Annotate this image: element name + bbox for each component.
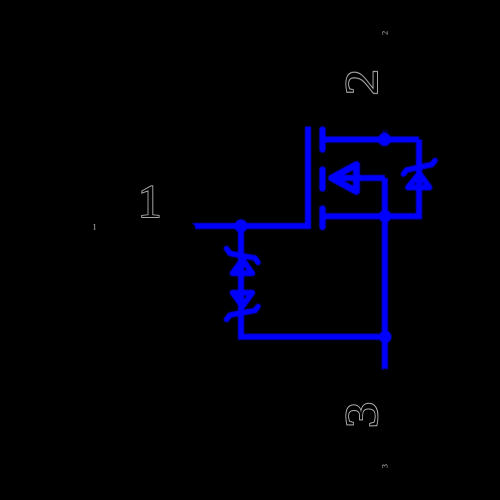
diode gate zener D1 cathode bar: [227, 249, 259, 263]
diode body zener cathode bar: [404, 161, 436, 175]
svg-text:2: 2: [381, 31, 390, 35]
wire gate zener chain and bottom return: [241, 226, 385, 337]
pin 1 dark pin-end cap: [187, 223, 196, 232]
junction bottom net: [379, 331, 392, 344]
pin 2 dark pin stub: [382, 130, 388, 134]
svg-text:3: 3: [381, 464, 390, 468]
transistor Q1 channel dash top: [319, 130, 325, 150]
wire body arrow to source: [332, 175, 385, 181]
diode gate zener D1 triangle: [233, 260, 253, 274]
svg-text:1: 1: [138, 176, 162, 228]
svg-text:1: 1: [93, 222, 97, 231]
pin 3 dark pin-end cap: [381, 368, 390, 377]
junction drain net: [378, 133, 391, 146]
transistor Q1 channel dash bottom: [319, 209, 325, 228]
diode body zener triangle: [408, 174, 430, 188]
transistor Q1 body arrow: [332, 165, 357, 192]
diode gate zener D2 cathode bar: [227, 307, 259, 320]
junction source net: [379, 210, 392, 223]
wire drain net: [324, 137, 419, 143]
wire vertical source to pin 3: [382, 178, 388, 370]
wire zener branch from drain to source: [385, 140, 419, 217]
wire source net: [324, 213, 385, 219]
svg-text:2: 2: [336, 69, 388, 95]
transistor Q1 channel dash middle: [319, 170, 325, 189]
wire gate net: pin1 to gate electrode: [193, 127, 309, 227]
junction gate net: [234, 219, 247, 232]
diode gate zener D2 triangle: [233, 293, 253, 307]
svg-text:3: 3: [336, 402, 388, 428]
